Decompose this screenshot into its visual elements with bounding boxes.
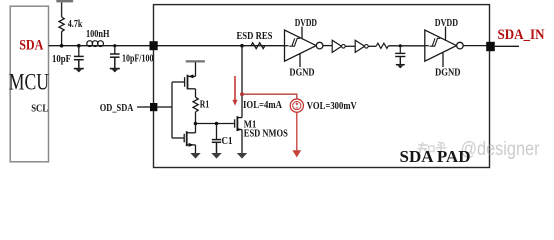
svg-text:100nH: 100nH bbox=[86, 29, 110, 40]
node dot RC cap junction bbox=[399, 44, 402, 47]
SDA PAD box bbox=[154, 5, 490, 168]
capacitor C1 bbox=[212, 140, 221, 153]
wire U1 to inverter 1 bbox=[323, 45, 332, 47]
inverter 1 bubble bbox=[342, 45, 346, 49]
wire R1 to node bbox=[195, 112, 197, 124]
transistor M1 ESD NMOS bbox=[235, 116, 242, 153]
wire OD_SDA to gate bus bbox=[157, 106, 172, 108]
wire M1 drain vertical bbox=[241, 46, 243, 118]
svg-text:OD_SDA: OD_SDA bbox=[100, 103, 134, 114]
wire OD_SDA lead bbox=[137, 106, 151, 108]
wire C1 lead bbox=[216, 124, 218, 140]
svg-text:C1: C1 bbox=[222, 136, 233, 147]
node dot 4.7k junction bbox=[60, 44, 64, 48]
node dot R1/NMOS drain bbox=[194, 122, 198, 126]
svg-text:@designer: @designer bbox=[461, 138, 540, 160]
svg-text:DVDD: DVDD bbox=[435, 18, 458, 29]
pad (SDA input square on box edge) bbox=[150, 41, 158, 50]
wire red tap to voltmeter bbox=[242, 94, 297, 99]
svg-text:IOL=4mA: IOL=4mA bbox=[243, 99, 282, 111]
capacitor 10pF bbox=[74, 56, 84, 68]
wire VDD bar to 4.7k resistor bbox=[61, 2, 63, 17]
wire gate bus vertical bbox=[171, 82, 173, 138]
pad (SDA_IN square on box edge) bbox=[486, 42, 495, 51]
wire U2 to output pad bbox=[463, 45, 487, 47]
resistor ESD RES bbox=[251, 43, 265, 49]
PMOS source arrow bbox=[188, 74, 193, 78]
svg-text:ESD RES: ESD RES bbox=[237, 31, 273, 42]
op-amp U2 second Schmitt trigger bbox=[425, 27, 457, 68]
VDD supply bar (top-left, for 4.7k pullup) bbox=[56, 0, 73, 2]
node dot C1 junction bbox=[215, 122, 219, 126]
watermark 乎 (hand strokes) bbox=[436, 142, 446, 152]
ground (red, under voltmeter) bbox=[292, 150, 301, 157]
transistor NMOS (inverter pull-down) bbox=[172, 124, 196, 154]
wire 10pF cap lead bbox=[78, 46, 80, 56]
node dot 10pF/100 junction bbox=[113, 44, 116, 47]
ground (under C1) bbox=[211, 153, 221, 159]
wire inverter2 to RC resistor bbox=[368, 45, 376, 47]
svg-text:SDA PAD: SDA PAD bbox=[400, 147, 471, 166]
U2 input tick bbox=[425, 45, 429, 47]
current annotation arrow IOL (red) bbox=[232, 76, 237, 106]
watermark 知 (hand strokes) bbox=[418, 143, 434, 153]
ground (under 10pF) bbox=[74, 69, 84, 73]
node dot 10pF junction bbox=[77, 44, 81, 48]
U1 input tick bbox=[285, 45, 289, 47]
svg-text:SDA_IN: SDA_IN bbox=[498, 27, 545, 43]
svg-text:10pF/100: 10pF/100 bbox=[122, 53, 154, 64]
node dot SDA/M1 drain junction bbox=[240, 44, 244, 48]
ground (under RC cap) bbox=[396, 65, 405, 69]
inverter 2 bubble bbox=[365, 45, 369, 49]
NMOS source arrow bbox=[189, 143, 194, 147]
svg-text:DGND: DGND bbox=[435, 68, 461, 79]
resistor (RC filter) bbox=[376, 43, 388, 48]
wire 10pF/100 cap lead bbox=[114, 46, 116, 54]
M1 source arrow bbox=[237, 128, 242, 132]
inverter 1 bbox=[332, 40, 341, 52]
U2 output bubble bbox=[457, 42, 464, 49]
svg-text:4.7k: 4.7k bbox=[68, 19, 83, 30]
node dot red tap on M1 drain bbox=[240, 92, 244, 96]
inductor 100nH bbox=[87, 41, 104, 47]
wire inverter1 to inverter2 bbox=[345, 45, 355, 47]
wire SDA_IN stub bbox=[495, 45, 519, 47]
ground (under M1) bbox=[237, 153, 247, 159]
resistor 4.7k bbox=[59, 17, 64, 32]
wire SDA main horizontal (MCU to first Schmitt input) bbox=[49, 45, 285, 47]
U1 output bubble bbox=[316, 42, 323, 49]
ground (under inverter NMOS) bbox=[190, 153, 200, 159]
VDD supply bar (PMOS source) bbox=[186, 60, 205, 62]
wire RC cap lead bbox=[399, 46, 401, 53]
svg-text:VOL=300mV: VOL=300mV bbox=[307, 100, 357, 112]
capacitor 10pF/100 bbox=[110, 54, 120, 68]
svg-text:MCU: MCU bbox=[9, 70, 49, 95]
resistor R1 bbox=[193, 97, 198, 112]
voltmeter VOL (red source symbol) bbox=[290, 99, 303, 112]
ground (under 10pF/100) bbox=[110, 69, 120, 73]
svg-text:SDA: SDA bbox=[19, 38, 43, 54]
svg-text:DVDD: DVDD bbox=[295, 18, 317, 29]
svg-text:ESD NMOS: ESD NMOS bbox=[244, 128, 288, 139]
wire node row to M1 gate bbox=[196, 123, 235, 125]
pad (OD_SDA square on box edge) bbox=[150, 103, 157, 111]
svg-text:SCL: SCL bbox=[31, 103, 48, 114]
svg-text:10pF: 10pF bbox=[52, 54, 71, 65]
transistor PMOS (inverter pull-up) bbox=[172, 62, 196, 97]
wire 4.7k to SDA line bbox=[61, 32, 63, 46]
inverter 2 bbox=[355, 40, 364, 52]
svg-text:DGND: DGND bbox=[289, 68, 314, 79]
op-amp U1 first Schmitt trigger bbox=[285, 27, 317, 68]
wire voltmeter to ground (red) bbox=[296, 112, 298, 151]
wire RC resistor to Schmitt 2 bbox=[388, 45, 427, 47]
MCU box bbox=[10, 6, 48, 162]
svg-text:R1: R1 bbox=[200, 99, 210, 110]
capacitor (RC filter) bbox=[395, 53, 405, 64]
